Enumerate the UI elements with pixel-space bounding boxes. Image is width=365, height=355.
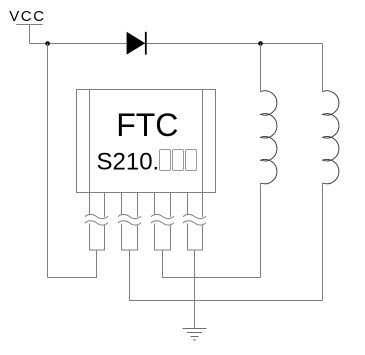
touch pad unit 1 pin right xyxy=(104,193,106,217)
IC U1 inner left line xyxy=(89,90,91,193)
touch pad unit 3 pin right xyxy=(170,193,172,217)
touch pad unit 3 electrode body xyxy=(155,224,171,250)
touch pad unit 4 pin left xyxy=(187,193,189,216)
touch pad unit 4 electrode body xyxy=(188,224,203,250)
IC U1 inner right line xyxy=(202,90,204,193)
touch pad unit 1 break squiggle lower xyxy=(85,221,108,225)
wire VCC stub xyxy=(29,25,31,44)
VCC rail bar xyxy=(16,24,42,26)
touch pad unit 1 electrode body xyxy=(90,224,105,250)
node junction left coil xyxy=(258,41,263,46)
placeholder digit box 3 xyxy=(186,150,197,171)
inductor L1 winding xyxy=(261,91,277,184)
svg-text:VCC: VCC xyxy=(9,8,45,25)
wire unit 2 lead to right coil xyxy=(130,250,323,301)
placeholder digit box 2 xyxy=(173,150,184,171)
touch pad unit 1 break squiggle upper xyxy=(85,214,108,218)
inductor L1 top lead xyxy=(260,44,262,92)
wire top horizontal rail xyxy=(30,43,323,45)
touch pad unit 3 break squiggle lower xyxy=(151,221,174,225)
diode D1 anode triangle xyxy=(127,32,146,55)
node junction left rail xyxy=(45,41,50,46)
wire unit 1 lead to VCC rail xyxy=(48,250,97,278)
touch pad unit 2 electrode body xyxy=(122,224,138,250)
IC U1 outer box xyxy=(77,90,216,193)
ground symbol xyxy=(183,329,207,341)
touch pad unit 2 break squiggle upper xyxy=(118,214,141,218)
svg-text:FTC: FTC xyxy=(116,107,178,143)
svg-text:S210.: S210. xyxy=(97,148,160,175)
touch pad unit 1 pin left xyxy=(89,193,91,216)
diode D1 cathode bar xyxy=(145,32,147,55)
wire unit 4 lead to ground xyxy=(194,250,196,329)
inductor L2 bottom lead xyxy=(322,183,324,301)
wire top right drop xyxy=(322,44,324,92)
placeholder digit box 1 xyxy=(160,150,171,171)
wire unit 3 lead to left coil xyxy=(163,250,261,278)
touch pad unit 2 break squiggle lower xyxy=(118,221,141,225)
touch pad unit 3 break squiggle upper xyxy=(151,214,174,218)
wire left rail vertical xyxy=(47,44,49,278)
touch pad unit 3 pin left xyxy=(154,193,156,216)
touch pad unit 4 pin right xyxy=(202,193,204,217)
touch pad unit 4 break squiggle lower xyxy=(183,221,206,225)
touch pad unit 2 pin right xyxy=(137,193,139,217)
inductor L2 winding xyxy=(323,91,339,184)
touch pad unit 2 pin left xyxy=(121,193,123,216)
touch pad unit 4 break squiggle upper xyxy=(183,214,206,218)
inductor L1 bottom lead xyxy=(260,183,262,278)
